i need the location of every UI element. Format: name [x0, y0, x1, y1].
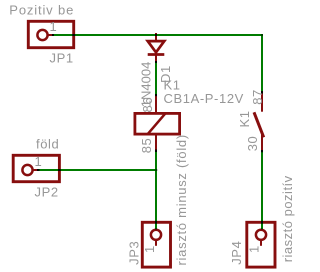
svg-text:föld: föld [36, 137, 59, 152]
connector JP4 pin stub [260, 241, 262, 246]
wire JP1 to top-right corner [52, 34, 263, 36]
relay switch K1 blade [254, 112, 264, 137]
svg-text:30: 30 [245, 136, 260, 152]
wire top-right corner down to switch pin 87 [261, 34, 263, 94]
connector JP3 box [142, 222, 170, 267]
svg-text:85: 85 [139, 138, 154, 154]
wire coil pin 85 down to JP3 [155, 150, 157, 230]
relay switch K1 pin 30 lead [261, 134, 263, 152]
connector JP1 pin stub [48, 34, 55, 36]
connector JP4 pin circle [256, 230, 266, 240]
svg-text:87: 87 [250, 89, 265, 105]
svg-text:Pozitiv be: Pozitiv be [9, 2, 74, 17]
wire diode cathode to coil pin 86 [155, 61, 157, 96]
svg-text:riasztó minusz (föld): riasztó minusz (föld) [174, 134, 189, 265]
connector JP1 pin circle [37, 30, 47, 40]
relay coil K1 pin 86 lead [155, 94, 157, 114]
svg-text:JP2: JP2 [35, 185, 59, 200]
diode D1 cathode pin [155, 55, 157, 64]
relay switch K1 pin 87 lead [261, 91, 263, 112]
diode D1 cathode bar [148, 53, 165, 56]
svg-text:JP1: JP1 [50, 51, 74, 66]
svg-text:1: 1 [142, 245, 157, 253]
connector JP2 pin stub [33, 169, 40, 171]
connector JP3 pin stub [155, 241, 157, 246]
svg-text:1: 1 [247, 245, 262, 253]
svg-text:1: 1 [50, 19, 58, 34]
relay coil K1 pin 85 lead [155, 134, 157, 152]
wire switch pin 30 down to JP4 [261, 150, 263, 229]
svg-text:JP3: JP3 [127, 241, 142, 265]
svg-text:JP4: JP4 [229, 241, 244, 265]
connector JP3 pin circle [151, 230, 161, 240]
relay coil K1 box [135, 113, 180, 134]
svg-text:1: 1 [35, 154, 43, 169]
relay coil K1 diagonal [148, 113, 166, 134]
connector JP1 box [28, 21, 73, 47]
diode D1 triangle [148, 41, 165, 52]
svg-text:86: 86 [140, 97, 155, 113]
connector JP2 box [13, 155, 59, 181]
svg-text:K1: K1 [237, 110, 252, 127]
svg-text:CB1A-P-12V: CB1A-P-12V [164, 91, 244, 106]
connector JP2 pin circle [22, 165, 32, 175]
wire JP2 to vertical net [37, 169, 157, 171]
diode D1 anode pin [155, 33, 157, 40]
connector JP4 box [247, 222, 275, 267]
svg-text:riasztó pozitív: riasztó pozitív [280, 175, 295, 262]
